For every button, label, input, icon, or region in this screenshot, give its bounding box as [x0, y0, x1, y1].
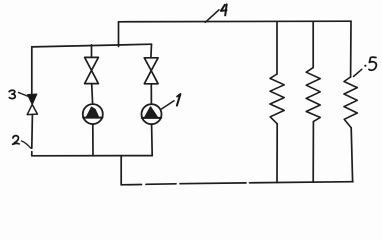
resistor 5 (heating element): [344, 77, 357, 128]
wire: heater branch 2 top lead: [312, 21, 314, 67]
label 2 leader: [22, 141, 32, 148]
check valve 3: [27, 94, 37, 115]
valve A (shut-off valve, branch A): [85, 57, 99, 83]
wire: bottom step drop: [120, 156, 122, 185]
label 4: [221, 4, 227, 15]
wire: left branch upper segment: [31, 47, 33, 94]
label 1: [177, 94, 181, 106]
wire: branch B drop from header: [150, 44, 153, 57]
wire: top bus (net 4): [119, 20, 352, 23]
label 2: [13, 136, 19, 145]
label 5: [364, 57, 376, 70]
resistor (heating element, middle): [306, 68, 320, 122]
pump 1 rotor triangle: [145, 107, 158, 118]
label 3 leader: [19, 93, 29, 97]
label 5 leader: [354, 69, 362, 76]
wire: inner manifold top header: [32, 44, 152, 47]
pump 1 (circle): [142, 104, 162, 124]
label 1 leader: [162, 101, 175, 109]
pump A chord: [83, 117, 102, 119]
wire: branch A pump-to-bottom: [92, 124, 94, 155]
wire: top bus riser: [118, 22, 120, 47]
wire: heater branch 2 bottom lead: [312, 122, 314, 183]
wire: heater branch 1 top lead: [276, 22, 278, 74]
pump A (circle): [83, 104, 103, 124]
wire: bottom return bus (dashed scan): [121, 182, 353, 185]
label 3: [9, 90, 15, 98]
pump 1 chord: [142, 117, 161, 119]
wire: right loop right edge (top corner down to resistor 5): [350, 21, 352, 77]
resistor (heating element, left): [270, 74, 284, 124]
wire: branch B pump-to-bottom: [151, 125, 154, 156]
wire: branch B valve-to-pump: [150, 84, 152, 104]
wire: branch A drop from header: [91, 45, 93, 58]
wire: left branch lower segment: [31, 115, 34, 156]
wire: inner manifold bottom header (pipe 2): [32, 155, 152, 157]
label 4 leader: [205, 10, 219, 22]
wire: heater branch 1 bottom lead: [276, 124, 278, 183]
wire: branch A valve-to-pump: [91, 84, 94, 104]
valve B (shut-off valve, branch B, feeds pump 1): [144, 58, 158, 84]
wire: resistor 5 bottom lead: [351, 128, 352, 182]
pump A rotor triangle: [86, 107, 99, 117]
